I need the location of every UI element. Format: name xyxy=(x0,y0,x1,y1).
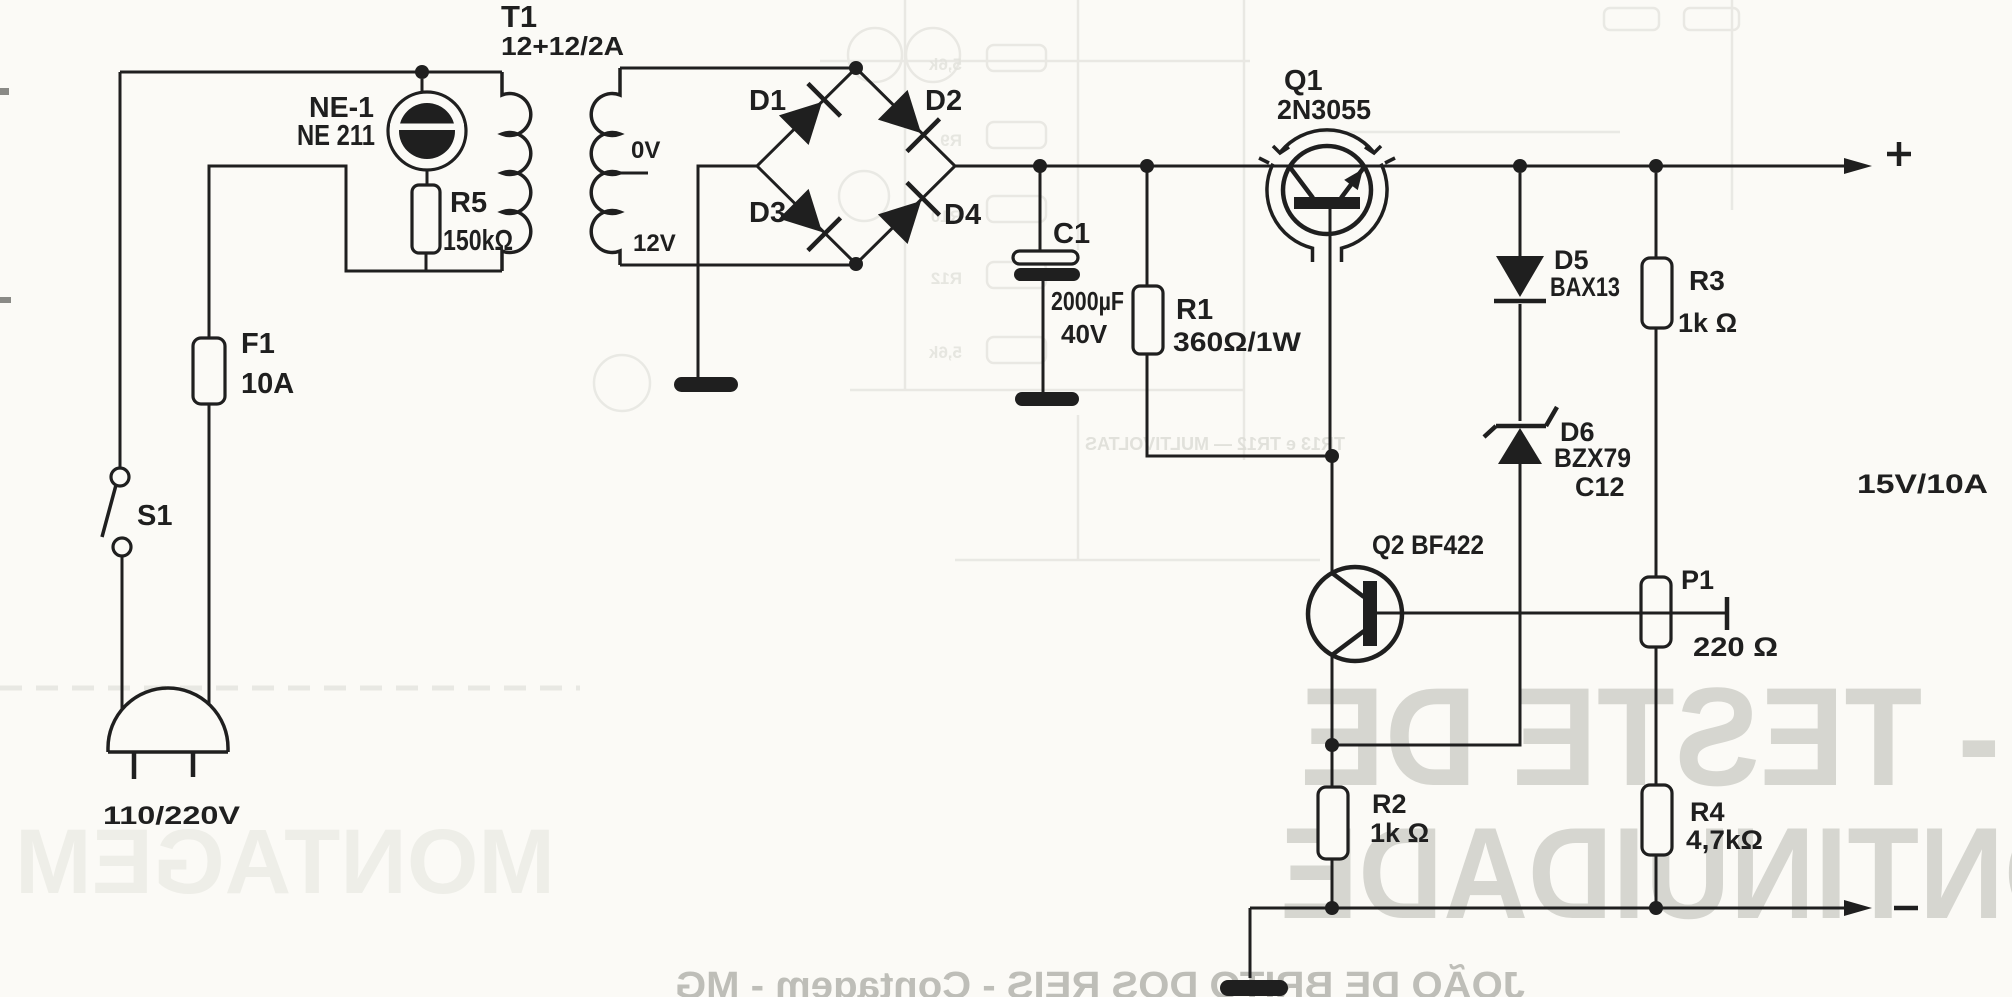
svg-text:15V/10A: 15V/10A xyxy=(1857,469,1988,499)
svg-text:D2: D2 xyxy=(925,85,962,117)
svg-text:JOÃO DE BRITO DOS REIS - Conta: JOÃO DE BRITO DOS REIS - Contagem - MG xyxy=(675,963,1525,997)
svg-text:5,6k: 5,6k xyxy=(928,343,962,362)
svg-text:D5: D5 xyxy=(1554,245,1589,275)
svg-text:R3: R3 xyxy=(1689,265,1725,296)
svg-text:S1: S1 xyxy=(137,500,172,532)
svg-text:TR13 e TR12 — MULTIVOLTAS: TR13 e TR12 — MULTIVOLTAS xyxy=(1085,434,1345,454)
svg-text:360Ω/1W: 360Ω/1W xyxy=(1173,327,1302,357)
svg-text:Q2 BF422: Q2 BF422 xyxy=(1372,530,1484,560)
svg-text:1k Ω: 1k Ω xyxy=(1370,818,1429,848)
svg-text:220 Ω: 220 Ω xyxy=(1693,632,1778,662)
svg-text:D4: D4 xyxy=(944,199,981,231)
svg-text:C12: C12 xyxy=(1575,472,1625,502)
svg-text:R5: R5 xyxy=(450,187,487,219)
svg-text:R4: R4 xyxy=(1690,797,1725,827)
svg-text:T1: T1 xyxy=(501,0,537,34)
svg-text:4,7kΩ: 4,7kΩ xyxy=(1686,825,1763,855)
svg-text:NE 211: NE 211 xyxy=(297,120,375,152)
svg-text:R1: R1 xyxy=(1176,294,1213,326)
svg-text:2000µF: 2000µF xyxy=(1051,286,1124,316)
svg-text:12+12/2A: 12+12/2A xyxy=(501,31,624,61)
svg-text:10A: 10A xyxy=(241,368,294,400)
svg-text:P1: P1 xyxy=(1681,565,1714,595)
svg-text:2N3055: 2N3055 xyxy=(1277,94,1371,125)
svg-text:Q1: Q1 xyxy=(1284,65,1323,97)
svg-text:MONTAGEM: MONTAGEM xyxy=(15,811,555,913)
svg-text:150kΩ: 150kΩ xyxy=(443,225,513,257)
svg-text:R2: R2 xyxy=(1372,789,1407,819)
svg-text:F1: F1 xyxy=(241,328,275,360)
svg-text:R9: R9 xyxy=(940,131,962,150)
svg-text:R12: R12 xyxy=(931,269,962,288)
svg-text:C1: C1 xyxy=(1053,218,1090,250)
svg-text:110/220V: 110/220V xyxy=(103,802,240,830)
svg-text:5,6k: 5,6k xyxy=(928,55,962,74)
svg-text:40V: 40V xyxy=(1061,319,1108,349)
svg-text:12V: 12V xyxy=(633,230,676,257)
svg-text:1k Ω: 1k Ω xyxy=(1678,308,1737,338)
svg-text:0V: 0V xyxy=(631,137,660,164)
svg-text:D3: D3 xyxy=(749,197,786,229)
svg-text:BZX79: BZX79 xyxy=(1554,443,1631,473)
svg-text:D1: D1 xyxy=(749,85,786,117)
svg-text:BAX13: BAX13 xyxy=(1550,272,1620,302)
